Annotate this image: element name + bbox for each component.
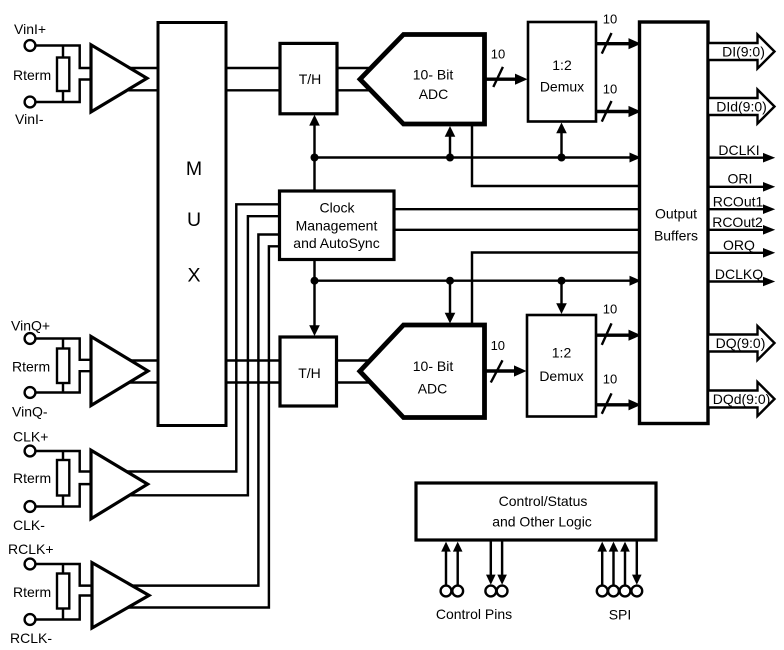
output bus arrow DId(9:0) bbox=[708, 90, 775, 124]
arrowhead RCOut1 output bbox=[763, 204, 775, 214]
svg-text:VinQ+: VinQ+ bbox=[11, 318, 50, 334]
svg-text:1:2: 1:2 bbox=[552, 345, 572, 361]
bus slash Demux2 out2 bbox=[602, 393, 612, 413]
svg-text:and Other Logic: and Other Logic bbox=[492, 514, 592, 530]
svg-text:DCLKQ: DCLKQ bbox=[715, 266, 763, 282]
wire SPI pin 3 bbox=[624, 545, 626, 586]
wire Rterm4 bottom stub bbox=[62, 608, 64, 620]
svg-text:SPI: SPI bbox=[609, 607, 632, 623]
terminal control pin 3 bbox=[485, 586, 496, 597]
svg-text:T/H: T/H bbox=[298, 365, 321, 381]
buffer A4 RCLK bbox=[92, 563, 149, 628]
resistor Rterm3 bbox=[57, 460, 69, 496]
arrowhead clock into ADC2 bbox=[445, 313, 456, 324]
bus Demux1 output 1 to output buffers bbox=[596, 42, 631, 45]
arrowhead clock into Demux1 bbox=[556, 123, 567, 134]
wire RCLK buffer output to clock management input 4 bbox=[124, 246, 280, 607]
arrowhead control pin 2 up bbox=[453, 542, 463, 552]
wire ORI from ADC1 to output buffers bbox=[472, 124, 640, 186]
wire Rterm2 top stub bbox=[62, 339, 64, 351]
arrowhead bus Demux2 out2 into output buffers bbox=[629, 399, 642, 410]
wire clock to Demux1 bbox=[560, 131, 562, 158]
terminal CLK+ bbox=[25, 446, 36, 457]
svg-text:Clock: Clock bbox=[319, 200, 355, 216]
terminal control pin 1 bbox=[441, 586, 452, 597]
wire VinI+ input to buffer bbox=[36, 46, 93, 69]
svg-text:10: 10 bbox=[603, 371, 617, 386]
wire control pin 4 bbox=[501, 542, 503, 578]
control status block bbox=[416, 483, 656, 540]
buffer A3 CLK bbox=[91, 450, 148, 519]
bus Demux2 output 1 to output buffers bbox=[596, 334, 631, 337]
wire buffer A1 output pair top bbox=[124, 67, 159, 69]
arrowhead control pin 3 down bbox=[486, 575, 496, 585]
terminal VinQ- bbox=[25, 387, 36, 398]
svg-text:M: M bbox=[186, 158, 202, 180]
svg-text:Output: Output bbox=[655, 206, 697, 222]
clock management block bbox=[280, 191, 395, 260]
wire clock to T/H1 bbox=[313, 123, 315, 191]
terminal SPI pin 1 bbox=[597, 586, 608, 597]
bus slash Demux1 out1 bbox=[602, 33, 612, 54]
wire T/H to ADC bottom pair 2 bbox=[337, 381, 381, 383]
wire Rterm2 bottom stub bbox=[62, 382, 64, 393]
terminal RCLK- bbox=[25, 614, 36, 625]
bus slash Demux2 out1 bbox=[602, 323, 612, 345]
buffer A2 VinQ bbox=[91, 337, 148, 406]
wire Rterm1 bottom stub bbox=[62, 90, 64, 102]
output bus arrow DQ(9:0) bbox=[708, 326, 775, 360]
wire DCLKQ output bbox=[708, 280, 765, 282]
arrowhead ORQ output bbox=[763, 248, 775, 258]
junction dot clock ADC1 bbox=[446, 154, 454, 162]
svg-text:VinQ-: VinQ- bbox=[12, 404, 48, 420]
terminal control pin 2 bbox=[452, 586, 463, 597]
arrowhead SPI pin 2 up bbox=[609, 542, 619, 552]
svg-text:Buffers: Buffers bbox=[654, 228, 698, 244]
svg-text:10: 10 bbox=[603, 301, 617, 316]
arrowhead clock into Demux2 bbox=[556, 303, 567, 314]
wire MUX to T/H top pair 2 bbox=[226, 89, 281, 91]
svg-text:10- Bit: 10- Bit bbox=[413, 358, 454, 374]
svg-text:CLK+: CLK+ bbox=[13, 429, 48, 445]
wire RCOut1 output bbox=[708, 208, 765, 210]
wire RCLK buffer output to clock management input 3 bbox=[126, 235, 280, 586]
arrowhead bus Demux1 out1 into output buffers bbox=[629, 38, 642, 49]
svg-text:ADC: ADC bbox=[419, 86, 449, 102]
wire VinQ+ input to buffer bbox=[36, 339, 93, 360]
svg-text:10- Bit: 10- Bit bbox=[413, 66, 454, 82]
svg-text:1:2: 1:2 bbox=[552, 57, 572, 73]
terminal RCLK+ bbox=[25, 559, 36, 570]
T/H block bottom bbox=[280, 337, 337, 406]
arrowhead DCLKQ into output buffers bbox=[630, 276, 642, 286]
wire T/H to ADC top pair 2 bbox=[337, 89, 380, 91]
svg-text:RCOut1: RCOut1 bbox=[713, 194, 764, 210]
svg-text:VinI-: VinI- bbox=[15, 111, 44, 127]
arrowhead SPI pin 4 down bbox=[632, 575, 642, 585]
terminal SPI pin 3 bbox=[620, 586, 631, 597]
svg-text:10: 10 bbox=[603, 11, 617, 26]
svg-text:CLK-: CLK- bbox=[13, 517, 45, 533]
terminal SPI pin 2 bbox=[608, 586, 619, 597]
wire CLK buffer output to clock management input 1 bbox=[120, 204, 280, 471]
arrowhead DCLKI into output buffers bbox=[630, 153, 642, 163]
svg-text:Rterm: Rterm bbox=[12, 359, 50, 375]
wire VinQ- input to buffer bbox=[36, 371, 93, 392]
svg-text:DQd(9:0): DQd(9:0) bbox=[713, 391, 771, 407]
arrowhead SPI pin 3 up bbox=[620, 542, 630, 552]
wire RCOut1 from clock management to output buffers bbox=[394, 208, 640, 210]
arrowhead DCLKI output bbox=[763, 153, 775, 163]
mux U1 bbox=[158, 23, 226, 426]
svg-text:DId(9:0): DId(9:0) bbox=[716, 99, 767, 115]
wire Rterm1 top stub bbox=[62, 46, 64, 60]
svg-text:DI(9:0): DI(9:0) bbox=[722, 44, 765, 60]
wire buffer A1 output pair bottom bbox=[124, 89, 159, 91]
svg-text:T/H: T/H bbox=[299, 71, 322, 87]
wire control pin 1 bbox=[445, 545, 447, 585]
wire CLK+ input to buffer bbox=[36, 451, 93, 472]
buffer A1 VinI bbox=[91, 45, 147, 112]
svg-text:and AutoSync: and AutoSync bbox=[293, 235, 379, 251]
wire Q-channel clock line bbox=[315, 279, 637, 281]
ADC1 10-bit bbox=[360, 35, 485, 125]
arrowhead RCOut2 output bbox=[763, 225, 775, 235]
svg-text:VinI+: VinI+ bbox=[14, 21, 46, 37]
svg-text:RCLK+: RCLK+ bbox=[8, 541, 54, 557]
terminal CLK- bbox=[25, 501, 36, 512]
terminal SPI pin 4 bbox=[631, 586, 642, 597]
wire buffer A2 output pair bottom bbox=[124, 381, 159, 383]
wire T/H to ADC top pair 1 bbox=[337, 67, 380, 69]
terminal VinI+ bbox=[25, 40, 36, 51]
bus Demux1 output 2 to output buffers bbox=[596, 110, 631, 113]
wire DCLKI output bbox=[708, 156, 765, 158]
arrowhead control pin 1 up bbox=[441, 542, 451, 552]
arrowhead clock into T/H1 bbox=[309, 115, 320, 126]
svg-text:Demux: Demux bbox=[539, 368, 583, 384]
arrowhead ORI output bbox=[763, 182, 775, 192]
svg-text:Rterm: Rterm bbox=[13, 584, 51, 600]
svg-text:DQ(9:0): DQ(9:0) bbox=[716, 335, 766, 351]
junction dot clock TH2 bbox=[311, 277, 319, 285]
wire CLK buffer output to clock management input 2 bbox=[122, 216, 280, 495]
arrowhead SPI pin 1 up bbox=[597, 542, 607, 552]
wire T/H to ADC bottom pair 1 bbox=[337, 359, 381, 361]
wire MUX to T/H top pair 1 bbox=[226, 67, 281, 69]
svg-text:10: 10 bbox=[491, 47, 505, 62]
wire Rterm3 bottom stub bbox=[62, 495, 64, 507]
wire buffer A2 output pair top bbox=[124, 359, 159, 361]
bus slash Demux1 out2 bbox=[602, 101, 612, 122]
wire control pin 3 bbox=[490, 542, 492, 578]
wire Rterm4 top stub bbox=[62, 564, 64, 575]
svg-text:Control Pins: Control Pins bbox=[436, 606, 512, 622]
arrowhead control pin 4 down bbox=[497, 575, 507, 585]
output buffers block bbox=[640, 22, 709, 424]
arrowhead clock into ADC1 bbox=[445, 126, 456, 137]
junction dot clock Demux1 bbox=[558, 154, 566, 162]
bus Demux2 output 2 to output buffers bbox=[596, 403, 631, 406]
svg-text:RCOut2: RCOut2 bbox=[712, 214, 763, 230]
arrowhead bus ADC1 to Demux1 bbox=[515, 74, 528, 85]
junction dot clock Demux2 bbox=[558, 277, 566, 285]
wire MUX to T/H bottom pair 2 bbox=[226, 381, 281, 383]
wire ORQ output bbox=[708, 252, 765, 254]
terminal VinQ+ bbox=[25, 333, 36, 344]
svg-text:Management: Management bbox=[296, 217, 378, 233]
svg-text:Demux: Demux bbox=[540, 78, 584, 94]
wire RCOut2 from clock management to output buffers bbox=[394, 229, 640, 231]
arrowhead bus ADC2 to Demux2 bbox=[514, 365, 527, 376]
wire SPI pin 4 bbox=[636, 542, 638, 578]
wire CLK- input to buffer bbox=[36, 484, 93, 506]
svg-text:Control/Status: Control/Status bbox=[499, 493, 588, 509]
output bus arrow DQd(9:0) bbox=[708, 382, 775, 416]
svg-text:U: U bbox=[187, 209, 201, 231]
bus slash ADC2 output bbox=[491, 360, 503, 382]
arrowhead bus Demux1 out2 into output buffers bbox=[629, 106, 642, 117]
T/H block top bbox=[280, 43, 337, 113]
svg-text:ADC: ADC bbox=[418, 380, 448, 396]
wire ORI output bbox=[708, 186, 765, 188]
junction dot clock TH1 bbox=[311, 154, 319, 162]
wire Rterm3 top stub bbox=[62, 451, 64, 461]
junction dot clock ADC2 bbox=[446, 277, 454, 285]
svg-text:10: 10 bbox=[491, 338, 505, 353]
arrowhead DCLKQ output bbox=[763, 277, 775, 287]
wire RCOut2 output bbox=[708, 229, 765, 231]
bus ADC2 to Demux2 bbox=[484, 369, 517, 372]
demux block top bbox=[528, 22, 596, 122]
svg-text:Rterm: Rterm bbox=[13, 470, 51, 486]
wire clock to ADC1 bbox=[449, 134, 451, 158]
wire clock to ADC2 bbox=[449, 281, 451, 315]
wire ORQ from ADC2 to output buffers bbox=[472, 253, 640, 328]
wire clock to T/H2 bbox=[313, 260, 315, 328]
terminal VinI- bbox=[25, 97, 36, 108]
svg-text:10: 10 bbox=[603, 81, 617, 96]
wire VinI- input to buffer bbox=[36, 80, 93, 103]
wire clock to Demux2 bbox=[560, 281, 562, 306]
terminal control pin 4 bbox=[497, 586, 508, 597]
arrowhead bus Demux2 out1 into output buffers bbox=[629, 330, 642, 341]
svg-text:ORI: ORI bbox=[728, 171, 753, 187]
bus slash ADC1 output bbox=[493, 67, 503, 87]
wire RCLK- input to buffer bbox=[36, 596, 93, 620]
svg-text:RCLK-: RCLK- bbox=[10, 630, 52, 646]
ADC2 10-bit bbox=[360, 325, 485, 418]
svg-text:Rterm: Rterm bbox=[13, 67, 51, 83]
svg-text:ORQ: ORQ bbox=[723, 237, 755, 253]
wire SPI pin 1 bbox=[601, 545, 603, 586]
arrowhead clock into T/H2 bbox=[309, 325, 320, 336]
wire SPI pin 2 bbox=[612, 545, 614, 586]
svg-text:DCLKI: DCLKI bbox=[718, 142, 759, 158]
bus ADC1 to Demux1 bbox=[484, 77, 518, 80]
wire MUX to T/H bottom pair 1 bbox=[226, 359, 281, 361]
svg-text:X: X bbox=[187, 265, 200, 287]
wire control pin 2 bbox=[456, 545, 458, 585]
wire I-channel clock line bbox=[315, 156, 637, 158]
resistor Rterm1 bbox=[57, 58, 69, 92]
resistor Rterm2 bbox=[57, 349, 69, 384]
wire RCLK+ input to buffer bbox=[36, 564, 93, 586]
output bus arrow DI(9:0) bbox=[708, 35, 775, 69]
resistor Rterm4 bbox=[57, 574, 69, 609]
demux block bottom bbox=[527, 315, 596, 417]
